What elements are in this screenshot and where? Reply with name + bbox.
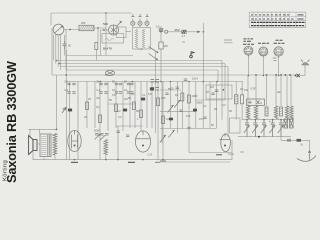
wire [107, 82, 109, 132]
wire [60, 35, 62, 71]
wire [51, 12, 131, 14]
tube V4 [135, 131, 150, 152]
node [65, 74, 67, 76]
wire [160, 128, 216, 130]
node [280, 119, 282, 121]
wire [56, 75, 58, 129]
resistor [241, 95, 244, 104]
capacitor C3 [182, 30, 187, 38]
coil frame [133, 28, 151, 50]
wire [94, 82, 96, 129]
wire [231, 140, 233, 160]
wire [195, 82, 197, 129]
resistor R2 [159, 42, 168, 49]
switch S1b [149, 54, 158, 61]
resistor X [284, 119, 288, 128]
wire [309, 140, 311, 151]
wire [304, 64, 306, 76]
svg-text:0,5: 0,5 [156, 25, 160, 29]
wire [33, 151, 67, 160]
svg-text:0,1: 0,1 [131, 92, 135, 96]
wire [29, 128, 57, 130]
capacitor blob [123, 109, 127, 112]
resistor [157, 98, 160, 106]
wire [39, 129, 41, 134]
node [56, 129, 58, 131]
terminal labels [151, 80, 160, 91]
node [255, 74, 257, 76]
wire [129, 82, 131, 129]
wire [134, 82, 136, 129]
coil L10 [246, 106, 249, 119]
wire [216, 82, 218, 129]
node [203, 31, 205, 33]
wire [146, 82, 148, 129]
wire [196, 99, 225, 101]
svg-text:0,1: 0,1 [240, 87, 244, 91]
tube V5 [220, 133, 231, 151]
coil L7 [104, 140, 108, 155]
capacitor blob [68, 109, 72, 112]
svg-text:500: 500 [103, 22, 108, 26]
wire [236, 82, 242, 120]
wire [86, 82, 88, 129]
node [105, 159, 107, 161]
rectifier box [247, 99, 265, 106]
svg-text:1M: 1M [124, 97, 128, 101]
capacitor cluster [95, 134, 109, 141]
wire [50, 13, 52, 26]
capacitor [211, 93, 214, 95]
voltage table [249, 12, 306, 28]
svg-text:0,2: 0,2 [222, 103, 226, 107]
node [223, 89, 225, 91]
coil can B [102, 34, 124, 44]
node [263, 119, 265, 121]
coil L3 [135, 29, 137, 48]
label UCH11 [243, 39, 254, 44]
svg-text:5000: 5000 [94, 129, 100, 133]
coil L11 [254, 106, 257, 119]
node [278, 75, 280, 77]
label 110 [160, 160, 166, 162]
capacitor pair [67, 83, 75, 85]
node [255, 119, 257, 121]
label UCL11 [274, 40, 285, 43]
svg-text:0,1: 0,1 [124, 88, 128, 92]
wire [69, 82, 71, 160]
pot arrow [169, 130, 175, 138]
node [280, 74, 282, 76]
wire bus [52, 74, 296, 76]
wire [99, 82, 101, 160]
wire [174, 31, 182, 33]
hook [165, 30, 168, 33]
node [170, 81, 172, 83]
svg-text:5000: 5000 [197, 101, 203, 105]
wire [202, 82, 204, 129]
svg-text:+ C: + C [258, 101, 262, 105]
svg-text:0,5: 0,5 [148, 92, 152, 96]
electrolytic bank [244, 120, 284, 137]
capacitor pair [67, 92, 75, 94]
svg-text:0,5: 0,5 [112, 93, 116, 97]
switch S2 [288, 139, 290, 142]
title Koerting [3, 160, 9, 181]
label UBF11 [258, 42, 269, 44]
label CCH [71, 161, 78, 163]
mains cord [297, 150, 316, 161]
wire [108, 103, 135, 105]
fuse Si [297, 139, 304, 147]
capacitor C2 [156, 25, 163, 32]
node [155, 81, 157, 83]
wire [248, 55, 278, 75]
svg-text:0,2F: 0,2F [251, 87, 257, 91]
svg-text:0,1: 0,1 [203, 104, 207, 108]
wire [57, 35, 59, 67]
wire [116, 125, 143, 127]
svg-text:2M: 2M [164, 44, 168, 48]
svg-text:0,5: 0,5 [199, 117, 203, 121]
svg-text:0,1: 0,1 [142, 93, 146, 97]
node [103, 29, 105, 31]
fuse X [295, 74, 305, 77]
wire rail bottom [67, 159, 233, 161]
wire rail [67, 81, 244, 83]
socket UCH11 [244, 46, 253, 57]
pot arrow [174, 100, 180, 108]
antenna terminal A1 [131, 14, 135, 28]
wire [95, 50, 97, 61]
node [188, 81, 190, 83]
svg-text:1M: 1M [210, 85, 214, 89]
wire [122, 82, 124, 132]
svg-text:1000: 1000 [192, 94, 198, 98]
coil L13 [285, 106, 288, 119]
mains antenna symbol [301, 60, 310, 66]
wire [77, 82, 79, 160]
socket UCL11 [274, 47, 283, 58]
label [155, 161, 160, 163]
wire [66, 82, 68, 160]
wire [157, 161, 230, 163]
resistor [86, 102, 89, 110]
capacitor [187, 127, 191, 129]
node [275, 74, 277, 76]
node [248, 75, 250, 77]
resistor [280, 107, 283, 116]
svg-text:252: 252 [175, 28, 180, 32]
svg-text:0,1: 0,1 [65, 88, 69, 92]
label [216, 154, 222, 156]
wire [248, 75, 291, 106]
node [246, 119, 248, 121]
svg-text:100: 100 [186, 114, 191, 118]
resistor [99, 115, 102, 123]
capacitor pair [99, 92, 107, 94]
node [117, 159, 119, 161]
box [230, 118, 241, 133]
wire rail [242, 119, 293, 121]
svg-text:ΩF: ΩF [277, 90, 281, 94]
mixer arrow [117, 21, 122, 27]
resistor [133, 102, 136, 110]
capacitor pair [127, 83, 134, 85]
wire [188, 82, 190, 136]
speaker [29, 136, 37, 155]
IF can box [206, 85, 232, 99]
wire [29, 129, 31, 137]
resistor [181, 93, 184, 101]
capacitor blob [169, 118, 173, 121]
capacitor C1 [63, 41, 72, 49]
node [258, 136, 260, 138]
antenna terminal A3 [145, 14, 149, 28]
wire rail [238, 136, 291, 138]
mark [240, 151, 244, 153]
wire [140, 82, 142, 132]
capacitor blob [150, 88, 154, 91]
wire [281, 137, 310, 141]
capacitor pair [115, 92, 122, 94]
dial lamp [105, 70, 114, 75]
capacitor pair [127, 92, 134, 94]
capacitor pair [115, 83, 122, 85]
node [74, 159, 76, 161]
wire [105, 154, 107, 160]
label 100 [128, 161, 135, 163]
label [224, 40, 233, 43]
resistor hatched [235, 95, 238, 104]
wire [64, 28, 106, 30]
arrow [197, 31, 200, 34]
coil L8 [53, 134, 57, 156]
svg-text:4,7: 4,7 [182, 34, 186, 38]
output transformer [40, 134, 51, 157]
svg-text:mF: mF [96, 96, 100, 100]
title Saxonia RB 3300GW [4, 60, 19, 183]
node [132, 81, 134, 83]
wire [160, 49, 162, 82]
capacitor pair [99, 83, 107, 85]
node [203, 81, 205, 83]
wire [126, 31, 131, 33]
component [117, 131, 130, 137]
svg-text:250: 250 [81, 21, 86, 25]
wire [160, 89, 181, 91]
wire [209, 82, 211, 129]
wire [151, 82, 153, 129]
svg-text:0,2: 0,2 [117, 109, 121, 113]
node [100, 81, 102, 83]
wire [117, 126, 119, 160]
wire [157, 82, 159, 160]
coil L4 [142, 29, 144, 48]
flag symbol [190, 52, 194, 58]
pot arrow [168, 105, 174, 113]
svg-text:L.O: L.O [139, 47, 143, 51]
wire bus [58, 64, 225, 101]
wire [189, 135, 232, 153]
wire [160, 26, 162, 42]
node [105, 74, 107, 76]
resistor X [290, 119, 294, 128]
node [59, 63, 61, 65]
svg-text:C,O: C,O [148, 153, 153, 157]
node [142, 159, 144, 161]
svg-text:0,1: 0,1 [97, 88, 101, 92]
node [263, 75, 265, 77]
wire bus [67, 55, 134, 57]
node [69, 29, 71, 31]
wire [160, 111, 196, 113]
node [284, 74, 286, 76]
wire [53, 35, 55, 61]
wire [176, 82, 178, 134]
wire [100, 30, 102, 56]
wire [186, 31, 199, 33]
component [176, 87, 180, 89]
wire [101, 29, 109, 31]
wire [170, 82, 172, 129]
wire [181, 82, 183, 129]
capacitor blob [193, 109, 197, 112]
coil L14 [290, 106, 293, 119]
capacitor [179, 110, 182, 112]
node [289, 74, 291, 76]
svg-text:Körting: Körting [3, 160, 9, 181]
svg-text:100: 100 [161, 96, 166, 100]
pot arrow [160, 135, 166, 143]
node [162, 159, 164, 161]
wire [202, 23, 204, 82]
wire [65, 30, 67, 71]
wire [64, 35, 66, 56]
wire [37, 135, 58, 160]
wire bus [56, 61, 223, 120]
tube V3 [68, 131, 81, 152]
coil can A [117, 27, 127, 38]
capacitor [165, 93, 168, 95]
capacitor [203, 117, 206, 119]
wire [55, 35, 57, 64]
wire [115, 82, 117, 129]
node [105, 12, 107, 14]
tube V2 mixer [109, 25, 119, 35]
wire [97, 28, 99, 42]
wire [154, 52, 156, 82]
wire [168, 31, 174, 33]
socket UBF11 [259, 47, 268, 58]
wire [154, 82, 156, 134]
resistor [162, 116, 165, 124]
svg-text:1014: 1014 [192, 77, 198, 81]
switch S1 [149, 47, 159, 54]
resistor [265, 107, 268, 116]
wire bus [61, 67, 229, 137]
wire [161, 82, 163, 144]
wire [105, 13, 107, 56]
svg-text:1W: 1W [244, 88, 248, 92]
svg-text:BL478: BL478 [103, 47, 112, 51]
capacitor [62, 107, 67, 113]
coil L12 [274, 106, 277, 119]
svg-text:0,1: 0,1 [175, 93, 179, 97]
antenna terminal A2 [138, 14, 142, 28]
svg-text:0,1: 0,1 [96, 105, 100, 109]
wire [51, 28, 53, 75]
resistor [140, 110, 143, 118]
coil L1 [79, 25, 94, 30]
node [56, 60, 58, 62]
node [266, 74, 268, 76]
node [97, 27, 99, 29]
capacitor blob [141, 98, 145, 101]
node [272, 119, 274, 121]
resistor R1 [95, 43, 98, 50]
wire [66, 50, 68, 82]
svg-text:0,1: 0,1 [112, 88, 116, 92]
resistor [115, 104, 118, 112]
node [160, 31, 162, 33]
label [273, 58, 277, 61]
capacitor [215, 90, 219, 92]
label 11 [182, 41, 185, 43]
tube V1 tuning cap [53, 24, 64, 35]
wire [162, 82, 164, 160]
node [160, 81, 162, 83]
resistor [188, 95, 191, 103]
capacitor [184, 79, 188, 81]
node [216, 81, 218, 83]
svg-text:0,2: 0,2 [118, 115, 122, 119]
wire bus [66, 70, 218, 82]
